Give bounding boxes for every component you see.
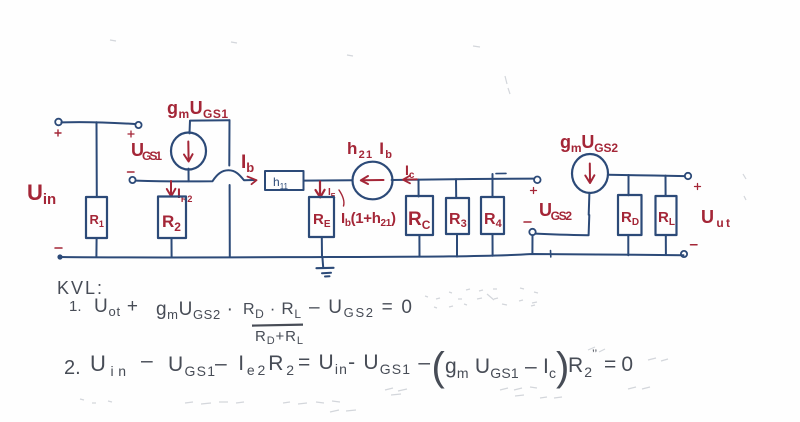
svg-text:R2: R2 xyxy=(568,354,592,380)
plus mark at U_GS1 port xyxy=(128,131,134,137)
svg-text:RE: RE xyxy=(313,211,331,230)
svg-text:IR2: IR2 xyxy=(177,185,192,204)
svg-text:–: – xyxy=(141,349,153,372)
node A vertical wire xyxy=(96,122,98,197)
terminal U_GS2 plus xyxy=(534,177,541,184)
svg-text:UGS2: UGS2 xyxy=(539,200,572,223)
svg-text:RD: RD xyxy=(621,209,639,228)
wire U_GS2 minus to CS3 stem xyxy=(536,193,590,235)
svg-text:UGS1: UGS1 xyxy=(131,140,162,163)
wire RL top stem xyxy=(665,176,667,196)
svg-text:= 0: = 0 xyxy=(604,353,633,376)
wire CS1 top to node B xyxy=(190,120,230,133)
svg-text:KVL:: KVL: xyxy=(57,278,102,298)
plus mark at input xyxy=(55,130,61,136)
resistor RL xyxy=(656,196,677,235)
wire R2 bottom stem xyxy=(171,238,173,257)
svg-text:– Ie2R2: – Ie2R2 xyxy=(215,352,294,378)
wire RC bottom stem xyxy=(418,235,420,257)
plus mark at U_GS2 port xyxy=(531,188,537,194)
terminal U_GS1 plus xyxy=(135,122,141,128)
wire R1 bottom stem xyxy=(95,238,97,257)
svg-text:Uin: Uin xyxy=(90,351,126,379)
faint pencil smudges (decorative) xyxy=(80,40,746,412)
svg-text:– UGS2 = 0: – UGS2 = 0 xyxy=(309,297,412,320)
wire RL bottom stem xyxy=(665,235,667,254)
svg-text:gmUGS1: gmUGS1 xyxy=(167,98,228,121)
svg-text:’’: ’’ xyxy=(592,347,597,361)
wire top-left xyxy=(61,122,134,124)
node B vertical wire (upper) xyxy=(228,120,230,165)
wire h11 to CS2 xyxy=(304,179,353,181)
resistor R2 xyxy=(158,197,186,239)
minus mark at U_GS2 port xyxy=(524,221,531,223)
plus mark at output xyxy=(695,184,701,190)
svg-text:UGS1: UGS1 xyxy=(168,353,215,379)
arrow I_b xyxy=(248,177,257,185)
svg-text:(: ( xyxy=(432,345,446,389)
svg-text:2.: 2. xyxy=(64,357,81,379)
minus mark at output xyxy=(691,244,698,246)
resistor RC xyxy=(406,196,433,235)
svg-text:h11: h11 xyxy=(273,175,289,191)
svg-text:gm UGS1 – Ic: gm UGS1 – Ic xyxy=(445,355,556,381)
svg-text:R2: R2 xyxy=(162,212,181,234)
resistor R1 xyxy=(86,197,107,238)
wire RE bottom stem xyxy=(321,237,323,257)
svg-text:1.: 1. xyxy=(69,298,82,315)
wire RD bottom stem xyxy=(627,235,629,255)
svg-text:RD · RL: RD · RL xyxy=(243,299,301,321)
fraction bar xyxy=(252,325,303,326)
minus mark at U_GS1 port xyxy=(128,171,135,173)
arrow I_E xyxy=(319,182,321,196)
terminal U_GS2 minus xyxy=(529,229,535,235)
svg-text:Uin: Uin xyxy=(27,180,56,208)
wire R3 bottom stem xyxy=(456,234,458,257)
current source CS1 gm U_GS1 xyxy=(171,133,206,170)
terminal output minus xyxy=(681,251,687,257)
wire U_GS2 minus to rail xyxy=(531,235,533,254)
wire CS2 to U_GS2 port xyxy=(392,179,535,180)
svg-text:Uot +: Uot + xyxy=(94,296,138,319)
svg-text:R3: R3 xyxy=(449,211,467,230)
two-port h11 box xyxy=(265,171,304,190)
wire R4 top stem xyxy=(492,174,494,197)
current source CS3 gm U_GS2 xyxy=(572,154,608,193)
equations xyxy=(57,278,633,389)
current source CS2 h21 Ib xyxy=(353,162,393,200)
resistor RD xyxy=(618,195,642,235)
bottom rail wire xyxy=(60,254,684,257)
arrow I_R2 xyxy=(170,181,172,195)
ground xyxy=(321,257,324,268)
svg-text:h21 Ib: h21 Ib xyxy=(347,139,392,161)
svg-text:R4: R4 xyxy=(484,211,503,230)
svg-text:R1: R1 xyxy=(90,212,104,229)
svg-text:Uut: Uut xyxy=(701,207,730,230)
resistor RE xyxy=(309,197,334,237)
svg-text:Ib: Ib xyxy=(241,152,254,175)
wire R4 bottom stem xyxy=(492,234,494,256)
terminal U_GS1 minus xyxy=(129,177,135,183)
svg-text:RC: RC xyxy=(408,209,431,232)
wire U_GS1 to h11 with hop over node B xyxy=(136,170,254,181)
svg-text:gmUGS2 ·: gmUGS2 · xyxy=(156,299,233,322)
node B vertical wire (lower) xyxy=(229,185,231,257)
wire junction tick on rail xyxy=(550,251,552,258)
wire CS3 to output xyxy=(608,175,685,176)
svg-text:RL: RL xyxy=(658,209,675,228)
wire RD top stem xyxy=(628,175,630,195)
svg-text:gmUGS2: gmUGS2 xyxy=(560,132,618,155)
svg-text:Ib(1+h21): Ib(1+h21) xyxy=(341,210,396,229)
minus mark at input bottom xyxy=(55,247,62,249)
terminal input plus (top-left) xyxy=(55,119,62,126)
svg-text:RD+RL: RD+RL xyxy=(255,328,303,347)
svg-text:= Uin- UGS1 –: = Uin- UGS1 – xyxy=(298,351,430,377)
resistor R3 xyxy=(446,198,469,234)
arrow I_c xyxy=(404,178,417,180)
terminal output plus xyxy=(685,173,691,179)
wire RC top stem xyxy=(418,180,420,197)
terminal input minus (filled dot) xyxy=(57,254,62,259)
wire R3 top stem xyxy=(455,179,457,198)
resistor R4 xyxy=(481,197,504,234)
wire CS1 bottom stem xyxy=(188,169,190,182)
